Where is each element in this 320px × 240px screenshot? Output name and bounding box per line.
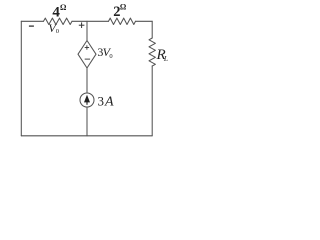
svg-text:0: 0 bbox=[56, 28, 59, 35]
current source 3A (circle) bbox=[80, 93, 94, 107]
polarity minus of V0 bbox=[29, 25, 34, 27]
wire top-middle (4-ohm to node A to 2-ohm) bbox=[72, 20, 109, 22]
wire bottom bbox=[21, 135, 152, 137]
wire top-left (corner to 4-ohm resistor) bbox=[21, 20, 43, 22]
wire current source to bottom bbox=[86, 107, 88, 136]
svg-text:Ω: Ω bbox=[60, 3, 67, 12]
svg-text:0: 0 bbox=[109, 53, 112, 60]
svg-text:Ω: Ω bbox=[120, 3, 127, 12]
resistor RL bbox=[149, 38, 155, 66]
svg-text:3: 3 bbox=[98, 93, 105, 108]
wire dependent source to current source bbox=[86, 68, 88, 93]
resistor 4 ohm bbox=[44, 18, 73, 24]
wire node A to dependent source bbox=[86, 21, 88, 40]
polarity plus of V0 bbox=[79, 22, 85, 28]
svg-text:L: L bbox=[163, 54, 168, 63]
minus sign inside diamond bbox=[85, 58, 90, 60]
plus sign inside diamond bbox=[85, 45, 89, 49]
svg-text:A: A bbox=[104, 94, 114, 109]
resistor 2 ohm bbox=[109, 18, 136, 24]
wire left side bbox=[20, 21, 22, 136]
wire top-right (2-ohm to corner) bbox=[136, 20, 153, 22]
wire right lower (RL to corner) bbox=[151, 66, 153, 136]
wire right upper (corner to RL) bbox=[151, 21, 153, 38]
dependent voltage source 3V0 (diamond) bbox=[78, 41, 96, 69]
current source arrow bbox=[85, 96, 89, 105]
